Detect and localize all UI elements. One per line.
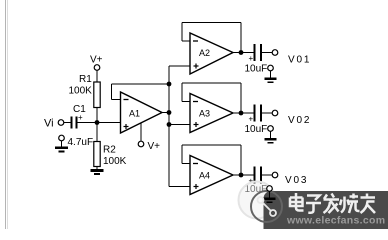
wire A1 feedback stub	[112, 99, 121, 101]
svg-text:V03: V03	[285, 175, 308, 186]
wire A3 feedback left vertical	[181, 83, 183, 102]
wire Vi to C1	[64, 122, 71, 124]
node bus A3 input	[167, 122, 172, 127]
svg-text:Vi: Vi	[44, 118, 54, 130]
wire A3 feedback stub	[182, 101, 190, 103]
svg-text:www.elecfans.com: www.elecfans.com	[286, 215, 385, 227]
op-amp A3	[190, 94, 233, 133]
wire A4 output	[233, 174, 254, 176]
watermark logo circle on white	[239, 182, 276, 219]
svg-text:100K: 100K	[103, 156, 127, 167]
terminal V02 ground circle	[268, 126, 274, 132]
wire bus to A4 + input	[169, 186, 190, 188]
svg-text:10uF: 10uF	[245, 64, 268, 75]
wire C1 to node and A1 + input	[78, 122, 121, 124]
op-amp A1	[121, 92, 163, 133]
op-amp A2	[190, 33, 233, 74]
wire node to R1	[96, 70, 98, 82]
svg-text:+: +	[249, 54, 254, 63]
svg-text:A3: A3	[199, 109, 210, 119]
ground V03	[264, 191, 276, 203]
node A2 output	[239, 50, 244, 55]
left page-edge lines	[6, 0, 8, 229]
watermark hanzi zi	[306, 196, 321, 213]
wire R2 to ground	[96, 167, 98, 170]
svg-text:4.7uF: 4.7uF	[68, 137, 94, 148]
svg-text:100K: 100K	[69, 86, 93, 97]
svg-text:A1: A1	[129, 109, 140, 119]
watermark dark panel	[264, 191, 388, 229]
wire A1 output	[162, 112, 170, 114]
resistor R1	[94, 82, 100, 108]
svg-text:+: +	[249, 115, 254, 124]
svg-text:+: +	[78, 113, 83, 122]
wire C4 to V03	[262, 174, 272, 176]
node bus A1 output	[167, 110, 172, 115]
wire C2 to V01	[262, 52, 272, 54]
capacitor C2 10uF	[255, 44, 262, 61]
ground input jack	[55, 141, 68, 153]
svg-text:R1: R1	[79, 74, 92, 85]
watermark hanzi you	[361, 194, 376, 214]
watermark logo diagonal line	[263, 203, 272, 212]
watermark logo ring inside panel	[251, 191, 282, 222]
wire A4 feedback stub	[182, 163, 190, 165]
wire A2 feedback right vertical	[240, 23, 242, 53]
wire A3 feedback top	[182, 82, 241, 84]
svg-text:A4: A4	[199, 171, 210, 181]
resistor R2	[94, 142, 100, 167]
capacitor C3 10uF	[255, 105, 262, 122]
node A4 output	[239, 173, 244, 178]
node Vi terminal	[44, 118, 64, 130]
node bus A1 feedback	[167, 82, 172, 87]
svg-text:V+: V+	[148, 141, 161, 152]
terminal V03 ground circle	[267, 186, 273, 192]
terminal V02	[272, 110, 278, 116]
node A3 output	[239, 111, 244, 116]
svg-text:R2: R2	[103, 145, 116, 156]
watermark logo small circle B	[270, 210, 276, 216]
svg-text:V+: V+	[90, 55, 103, 66]
watermark hanzi fa	[324, 194, 340, 214]
wire R1 to node	[96, 108, 98, 123]
wire A2 feedback top	[182, 22, 241, 24]
ground V01	[265, 71, 277, 83]
op-amp A4	[190, 156, 233, 195]
terminal V+ A1	[138, 141, 144, 147]
wire A3 output	[233, 112, 254, 114]
ground V02	[265, 131, 277, 143]
capacitor C4 10uF	[255, 167, 262, 184]
watermark hanzi dian	[290, 193, 304, 211]
wire A3 feedback right vertical	[240, 83, 242, 113]
terminal V+ top	[94, 65, 100, 71]
svg-text:A2: A2	[199, 48, 210, 58]
svg-text:10uF: 10uF	[245, 124, 268, 135]
wire A1 feedback left vertical	[111, 84, 113, 100]
wire A1 V+ stem	[140, 123, 142, 141]
wire A2 feedback left vertical	[181, 23, 183, 42]
terminal V03	[272, 172, 278, 178]
terminal V01 ground circle	[268, 65, 274, 71]
wire A2 feedback stub	[182, 40, 190, 42]
watermark hanzi shao	[340, 194, 360, 214]
wire A4 feedback left vertical	[181, 145, 183, 164]
wire A2 output	[233, 52, 254, 54]
capacitor C1	[72, 117, 77, 129]
wire bus to A2 + input	[169, 65, 190, 67]
wire output bus vertical	[168, 66, 170, 187]
wire node to R2	[96, 123, 98, 142]
node junction input	[95, 120, 100, 125]
wire bus to A3 + input	[169, 124, 190, 126]
watermark logo small circle A	[258, 197, 264, 203]
terminal input ground circle	[59, 135, 65, 141]
wire A4 feedback top	[182, 144, 241, 146]
wire C3 to V02	[262, 112, 272, 114]
terminal V01	[272, 50, 278, 56]
svg-text:V02: V02	[288, 115, 311, 126]
svg-text:V01: V01	[288, 55, 311, 66]
wire A1 feedback top	[112, 83, 170, 85]
ground under R2	[91, 169, 104, 175]
wire A4 feedback right vertical	[240, 145, 242, 175]
